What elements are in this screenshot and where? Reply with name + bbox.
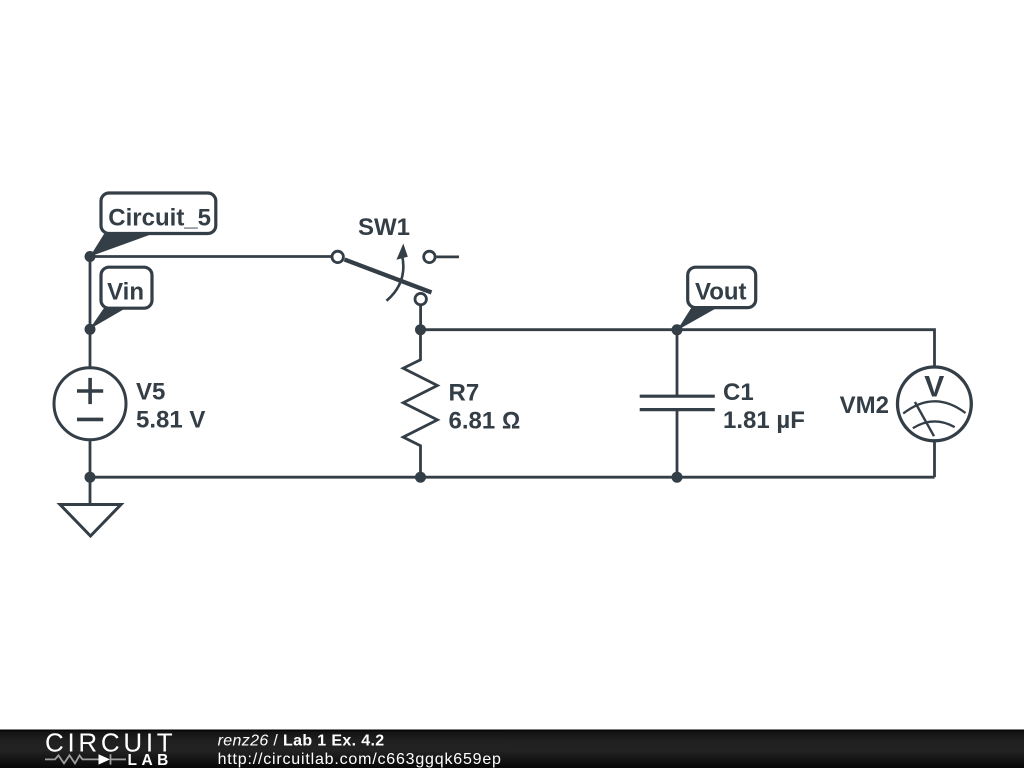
voltmeter VM2	[898, 367, 972, 441]
wire from V5 bottom to bottom rail	[89, 440, 92, 478]
label V5 value	[136, 379, 205, 434]
svg-text:Vout: Vout	[695, 279, 747, 306]
switch SW1	[332, 244, 459, 305]
wire left vertical from Circuit_5 node to Vin node	[89, 257, 92, 330]
svg-text:R7: R7	[449, 379, 480, 406]
node C1 bottom junction	[672, 472, 683, 483]
callout Circuit_5	[90, 193, 216, 257]
switch right terminal	[424, 251, 435, 262]
callout Vout	[677, 267, 756, 330]
svg-text:LAB: LAB	[128, 752, 173, 768]
switch lever	[345, 260, 432, 293]
wire bottom rail	[90, 476, 935, 479]
switch right stub	[437, 255, 460, 258]
wire from Vin node to V5 top	[89, 329, 92, 368]
svg-text:C1: C1	[723, 379, 754, 406]
svg-text:5.81 V: 5.81 V	[136, 407, 205, 434]
wire mid rail from R7 node to VM2 with corner	[421, 330, 935, 368]
switch common terminal	[415, 293, 426, 304]
svg-text:V5: V5	[136, 379, 165, 406]
node V5 bottom junction	[85, 472, 96, 483]
ground	[60, 505, 121, 537]
switch left terminal	[332, 251, 343, 262]
node Circuit_5 junction	[85, 251, 96, 262]
svg-text:6.81 Ω: 6.81 Ω	[449, 407, 521, 434]
capacitor C1	[640, 330, 715, 478]
logo resistor diode doodle	[45, 754, 126, 764]
node R7 top junction	[415, 324, 426, 335]
switch arrowhead	[396, 244, 407, 260]
svg-text:Circuit_5: Circuit_5	[108, 205, 211, 232]
wire ground stub	[89, 477, 92, 504]
svg-text:Vin: Vin	[107, 278, 144, 305]
svg-text:V: V	[924, 371, 944, 404]
switch arrow curve	[387, 254, 404, 301]
svg-text:http://circuitlab.com/c663ggqk: http://circuitlab.com/c663ggqk659ep	[218, 751, 502, 768]
node Vin junction	[85, 324, 96, 335]
node R7 bottom junction	[415, 472, 426, 483]
label R7 value	[449, 379, 521, 434]
svg-text:1.81 µF: 1.81 µF	[723, 407, 805, 434]
callout Vin	[89, 267, 152, 329]
svg-text:renz26 / Lab 1 Ex. 4.2: renz26 / Lab 1 Ex. 4.2	[218, 732, 385, 749]
node Vout junction	[672, 324, 683, 335]
wire from VM2 bottom to bottom rail	[933, 441, 936, 478]
resistor R7	[403, 330, 437, 478]
svg-text:SW1: SW1	[358, 214, 410, 241]
wire switch common terminal down to R7 top node	[419, 305, 422, 330]
footer bar	[0, 730, 1024, 768]
svg-text:VM2: VM2	[840, 392, 889, 419]
wire top rail from Circuit_5 node to switch left terminal	[90, 255, 331, 258]
label C1 value	[723, 379, 805, 434]
voltage source V5	[54, 368, 126, 440]
